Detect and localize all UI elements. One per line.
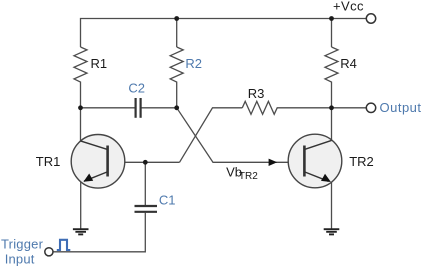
- svg-text:TR2: TR2: [349, 154, 374, 169]
- svg-text:C2: C2: [128, 80, 145, 95]
- svg-text:+Vcc: +Vcc: [333, 0, 364, 14]
- svg-text:R1: R1: [91, 56, 108, 71]
- svg-text:Output: Output: [380, 100, 422, 115]
- svg-text:R4: R4: [340, 56, 357, 71]
- svg-text:C1: C1: [159, 193, 176, 208]
- svg-text:Input: Input: [5, 251, 35, 266]
- svg-text:R3: R3: [248, 86, 265, 101]
- svg-text:Trigger: Trigger: [1, 237, 44, 252]
- svg-text:R2: R2: [185, 56, 202, 71]
- svg-text:TR1: TR1: [36, 154, 61, 169]
- svg-text:TR2: TR2: [239, 171, 258, 182]
